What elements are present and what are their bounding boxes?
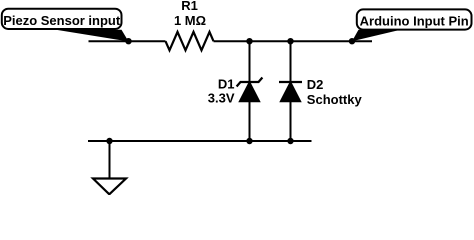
wire bottom (ground rail) [88,140,312,142]
svg-text:1 MΩ: 1 MΩ [174,13,206,28]
wire diode D1 branch [249,41,251,141]
junction node D1 top [246,38,252,44]
zener diode D1 [237,78,263,102]
ground [93,141,126,194]
svg-text:3.3V: 3.3V [208,91,235,106]
resistor R1 [166,32,214,50]
label box "Arduino Input Pin" [357,9,472,29]
junction node ground tap [106,138,112,144]
junction node (piezo tap) [125,38,131,44]
callout pointer (piezo) [56,30,129,42]
junction node D2 top [287,38,293,44]
svg-text:Schottky: Schottky [307,92,363,107]
svg-text:D1: D1 [218,77,235,92]
wire diode D2 branch [290,41,292,141]
junction node D2 bottom [287,138,293,144]
svg-text:Arduino Input Pin: Arduino Input Pin [360,13,469,28]
wire top-left segment [89,40,166,42]
svg-text:Piezo Sensor input: Piezo Sensor input [3,13,121,28]
label box "Piezo Sensor input" [2,9,122,29]
junction node (arduino tap) [349,38,355,44]
svg-text:D2: D2 [307,77,324,92]
junction node D1 bottom [246,138,252,144]
diode D2 (Schottky) [279,82,302,102]
svg-text:R1: R1 [181,0,198,13]
callout pointer (arduino) [352,30,401,42]
wire top-right segment [214,40,373,42]
